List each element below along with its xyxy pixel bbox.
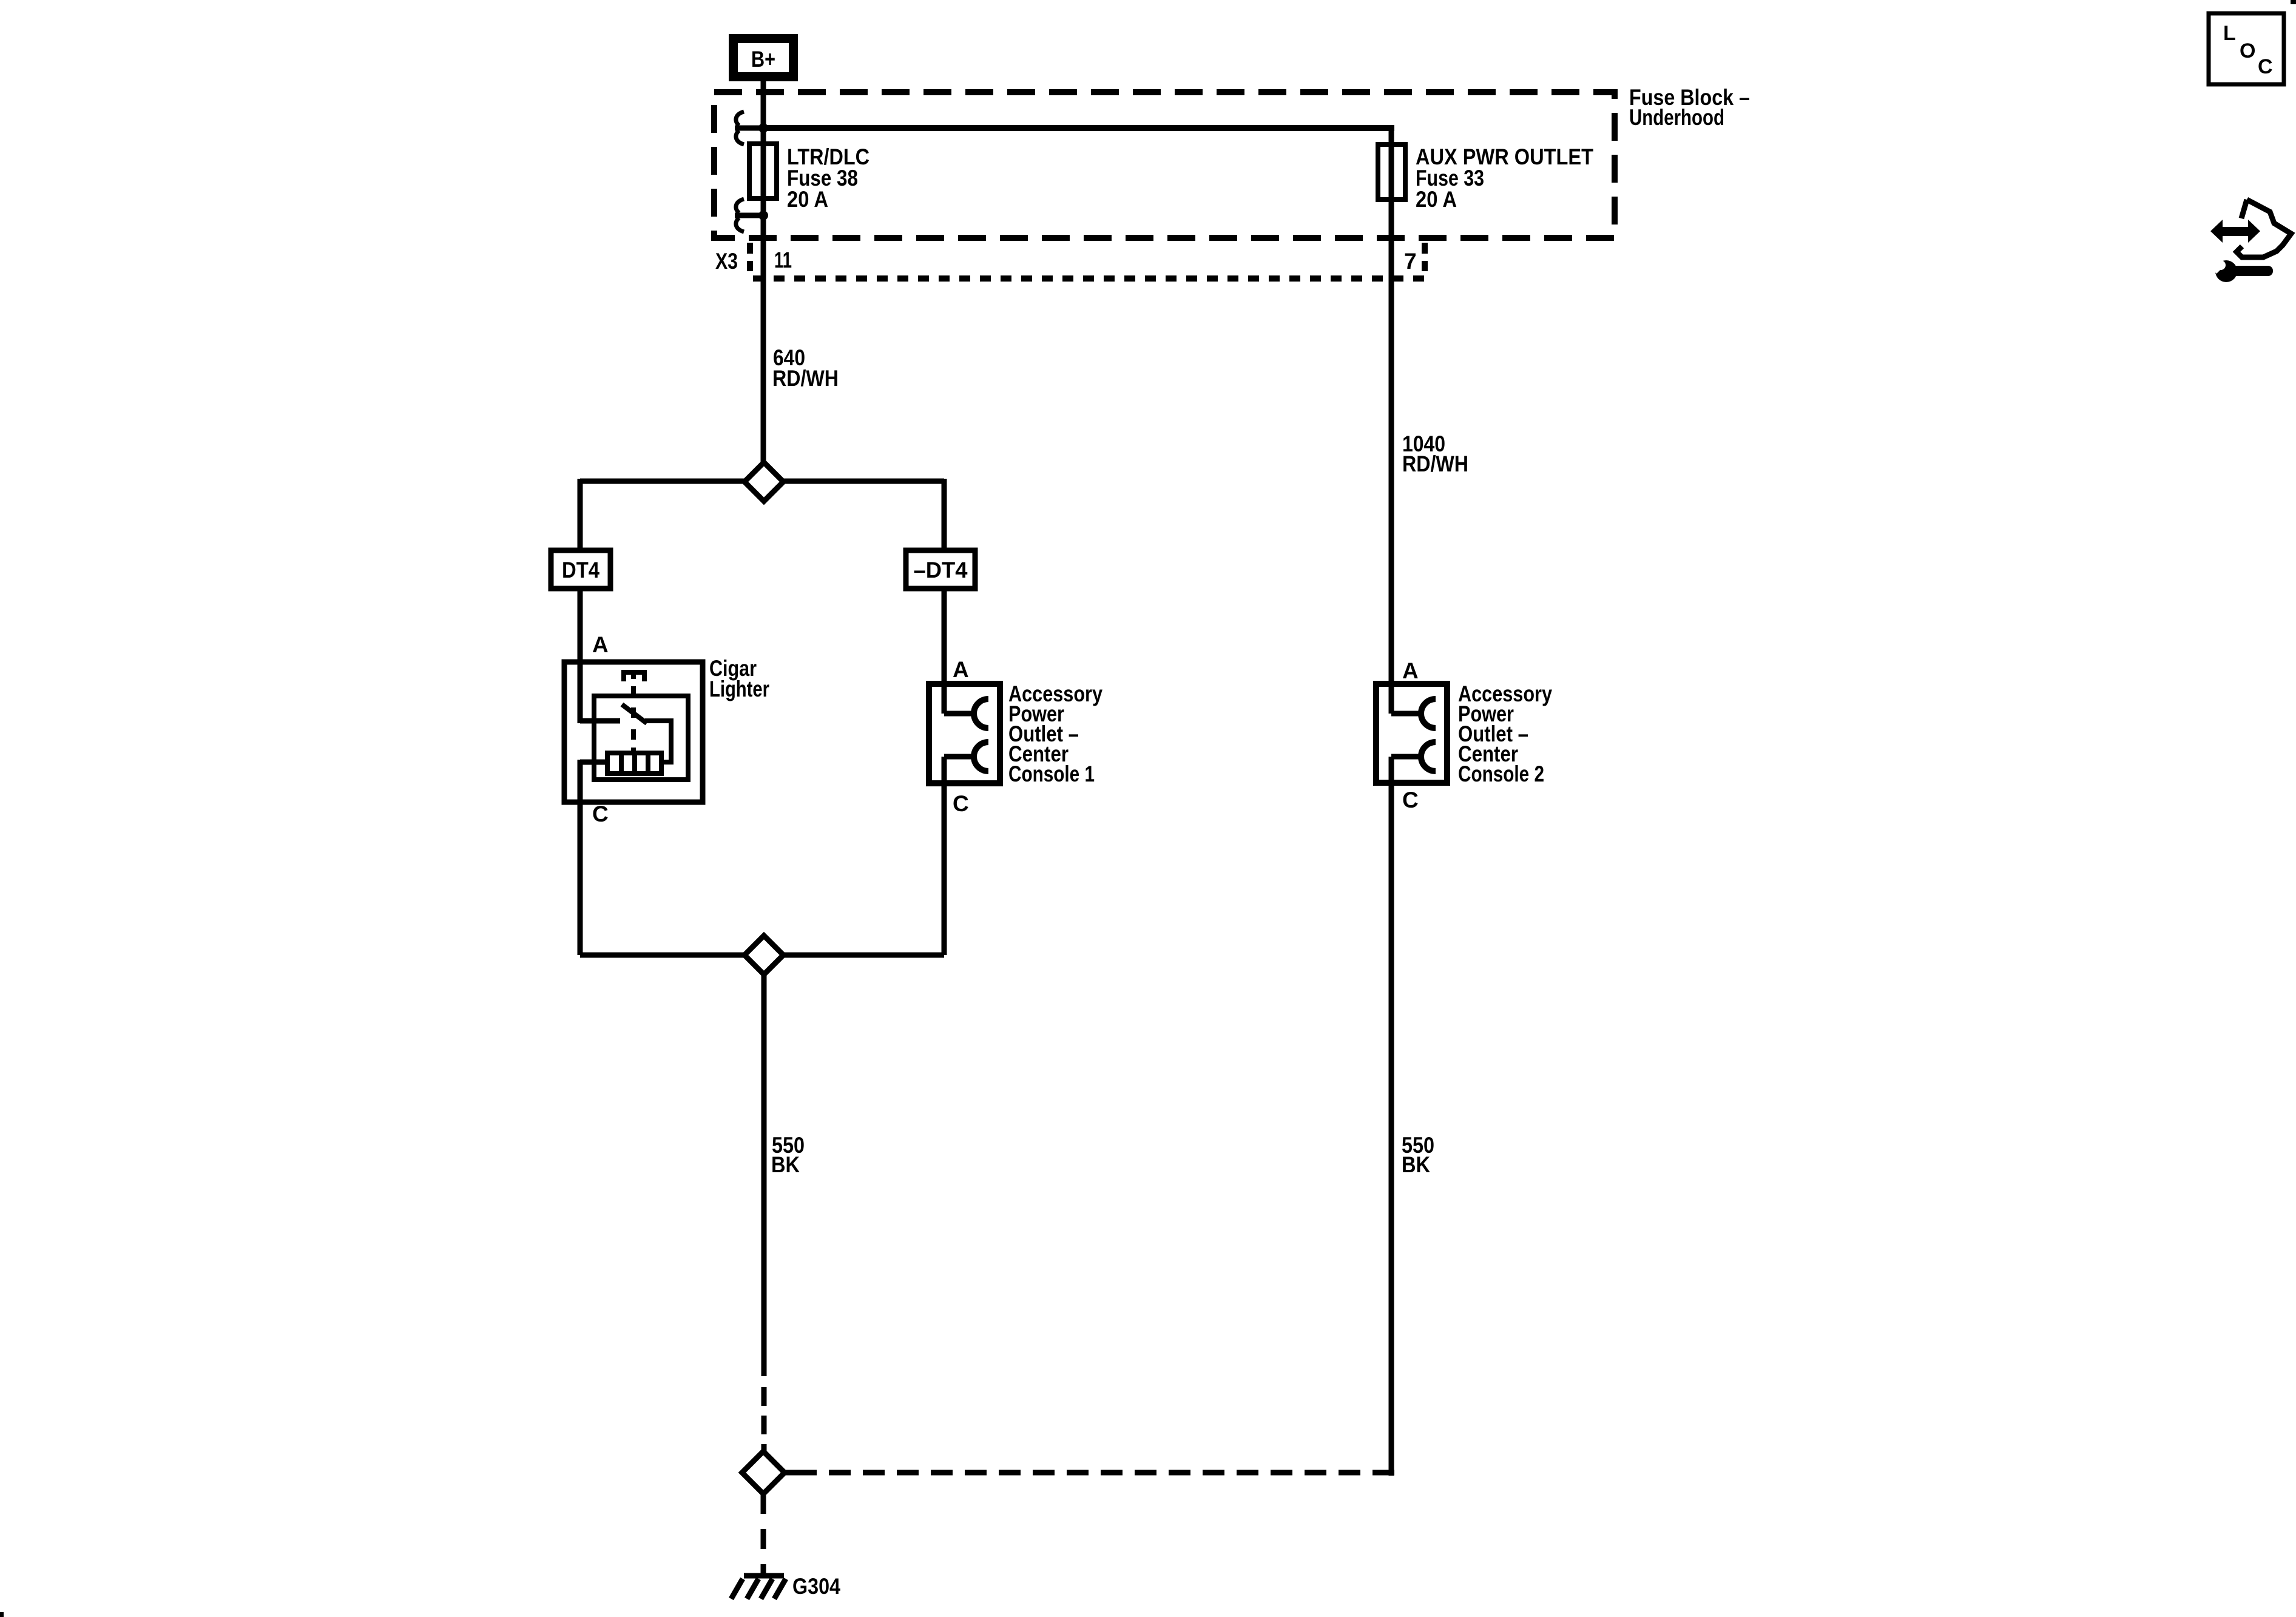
right-mid branch wire down to -DT4 [942, 479, 947, 550]
svg-text:Console 1: Console 1 [1008, 761, 1095, 786]
switch lever [622, 704, 647, 723]
svg-text:C: C [953, 791, 969, 816]
junction dot upper [758, 123, 768, 133]
connector X3 row [715, 243, 1426, 279]
fuse 33 symbol [1378, 144, 1405, 200]
fuse 38 symbol [749, 144, 777, 198]
svg-text:7: 7 [1404, 249, 1417, 274]
junction dot lower [758, 211, 768, 220]
svg-text:20 A: 20 A [1416, 187, 1457, 212]
outline shape [2241, 200, 2247, 218]
wire B+ to splice (left column) [761, 81, 766, 465]
svg-text:Lighter: Lighter [709, 677, 769, 701]
wire DT4 to cigar lighter [578, 589, 583, 723]
svg-text:BK: BK [1402, 1152, 1430, 1177]
clip terminal lower (fuse 38) [735, 199, 763, 232]
svg-text:RD/WH: RD/WH [772, 366, 839, 391]
svg-text:–DT4: –DT4 [914, 558, 968, 582]
bus wire from fuse 38 junction to fuse 33 [763, 125, 1394, 131]
accessory power outlet 2 [1376, 684, 1447, 783]
wire A to switch contact [580, 718, 620, 724]
service info icon [2204, 200, 2291, 282]
svg-text:A: A [1402, 658, 1419, 683]
ground G304 [731, 1576, 786, 1599]
wire label 640 RD/WH [772, 345, 839, 391]
svg-text:C: C [1402, 788, 1419, 812]
heater element box [607, 753, 661, 774]
dashed wire splice to ground [761, 1494, 766, 1573]
svg-text:C: C [592, 802, 609, 826]
wire label 550 BK right [1402, 1133, 1434, 1177]
-DT4 box [906, 550, 975, 589]
LOC legend box [2209, 13, 2284, 84]
left branch wire down to DT4 [578, 479, 583, 550]
svg-text:A: A [953, 657, 969, 682]
label outlet 2 [1458, 681, 1552, 786]
svg-text:A: A [592, 632, 609, 657]
wire fuse 33 down (1040 RD/WH) [1389, 125, 1394, 684]
outer case [564, 662, 703, 802]
dashed wire splice to right column [785, 1470, 795, 1476]
svg-text:C: C [2258, 55, 2273, 78]
label cigar lighter [709, 656, 769, 701]
svg-text:G304: G304 [792, 1574, 840, 1599]
wire -DT4 to outlet 1 [942, 589, 947, 714]
plunger dashes [631, 686, 636, 696]
svg-text:Underhood: Underhood [1629, 105, 1724, 130]
mid horizontal wire to branches [580, 479, 944, 484]
inner housing box [594, 696, 688, 780]
bottom return wires to splice [580, 953, 745, 958]
label Fuse Block - Underhood [1629, 85, 1750, 130]
wire outlet2 C down (550 BK right) [1389, 783, 1394, 1476]
svg-text:20 A: 20 A [787, 187, 828, 212]
cigar lighter component [564, 662, 703, 802]
wire label 1040 RD/WH [1402, 431, 1468, 476]
DT4 box [551, 550, 610, 589]
wire splice down solid [761, 974, 767, 1376]
svg-text:O: O [2240, 39, 2255, 62]
svg-text:B+: B+ [751, 47, 775, 72]
svg-text:BK: BK [771, 1152, 800, 1177]
svg-text:L: L [2223, 22, 2236, 45]
wrench [2215, 260, 2237, 282]
wire cigar lighter C down [578, 760, 583, 955]
label outlet 1 [1008, 681, 1102, 786]
page artifact top-right [2291, 0, 2296, 4]
splice diamond top [745, 462, 783, 501]
right contact path [645, 721, 671, 762]
Fuse Block - Underhood dashed box [714, 92, 1615, 238]
top terminal [624, 672, 644, 681]
svg-text:11: 11 [774, 248, 792, 272]
fuse 38 label [787, 144, 869, 212]
wire outlet1 C down [942, 783, 947, 955]
double arrow [2210, 220, 2260, 243]
svg-text:X3: X3 [715, 249, 738, 274]
wire label 550 BK left [771, 1133, 805, 1177]
svg-text:RD/WH: RD/WH [1402, 451, 1468, 476]
clip terminal upper (fuse 38) [735, 112, 763, 144]
svg-text:DT4: DT4 [562, 558, 599, 582]
fuse 33 label [1416, 144, 1593, 212]
accessory power outlet 1 [929, 684, 1000, 783]
B+ power symbol [729, 34, 798, 81]
svg-text:Console 2: Console 2 [1458, 761, 1544, 786]
wire dashed to ground splice [761, 1387, 767, 1451]
splice diamond G304 [742, 1451, 785, 1494]
wire element to C [580, 760, 607, 765]
splice diamond bottom-mid [745, 936, 783, 974]
page artifact bottom-left [0, 1612, 4, 1617]
